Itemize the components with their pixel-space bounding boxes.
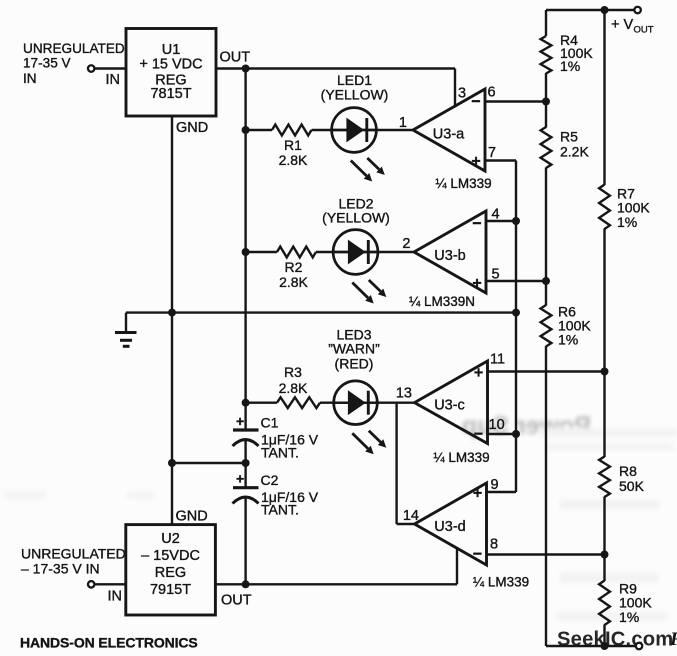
wire R3 to U3-c output (320, 402, 415, 404)
label R3 value (279, 364, 308, 396)
wire R7 chain top (603, 10, 605, 185)
svg-text:IN: IN (106, 72, 121, 88)
terminal +Vout (634, 7, 641, 14)
svg-text:R5: R5 (560, 129, 578, 145)
node R2 tap (242, 248, 250, 256)
wire R4 to R5 (545, 73, 547, 128)
comparator U3-b (414, 211, 486, 293)
svg-text:7915T: 7915T (150, 582, 191, 598)
svg-text:F: F (669, 629, 677, 650)
wire pin 4 (486, 220, 516, 222)
U1 pin label IN (106, 72, 121, 88)
wire U2 OUT rail (215, 583, 457, 585)
LED LED2 yellow (332, 230, 386, 304)
svg-text:2.8K: 2.8K (279, 152, 308, 168)
svg-text:+: + (472, 275, 481, 292)
pin 13 label (396, 386, 412, 402)
wire +15V to R3 (246, 402, 277, 404)
resistor R8 (599, 457, 610, 498)
label R5 value (560, 129, 589, 160)
wire R1 to U3-a output (312, 129, 414, 131)
resistor R4 (541, 36, 552, 73)
wire pin 11 (488, 370, 605, 372)
resistor R6 (541, 305, 552, 347)
svg-text:1: 1 (399, 115, 407, 131)
input terminal unregulated negative (88, 581, 95, 588)
label R6 value (558, 304, 591, 348)
svg-text:OUT: OUT (220, 50, 251, 66)
label LED1 (321, 72, 389, 103)
label R8 value (619, 463, 645, 494)
svg-text:+: + (236, 413, 244, 429)
label R2 value (279, 259, 308, 290)
wire bottom output rail (546, 645, 636, 647)
svg-text:13: 13 (396, 386, 412, 402)
label 1/4 LM339 for U3-c (433, 450, 489, 465)
svg-text:+ V: + V (611, 17, 633, 33)
svg-text:2.2K: 2.2K (560, 144, 589, 160)
node pin 5 to divider (542, 277, 550, 285)
pin 8 label (490, 537, 498, 553)
pin 3 label (458, 86, 466, 102)
resistor R1 (272, 125, 311, 136)
label 1/4 LM339 for U3-d (473, 575, 529, 590)
node -15V at U2 OUT (242, 580, 250, 588)
ground symbol (115, 313, 137, 347)
wire pin 6 (485, 100, 546, 102)
svg-text:2.8K: 2.8K (279, 274, 308, 290)
pin 1 label (399, 115, 407, 131)
U2 pin label OUT (221, 593, 252, 609)
node pin 6 to divider (542, 98, 550, 106)
wire pin 9 (487, 491, 517, 493)
comparator U3-d (415, 483, 487, 565)
label unregulated positive input (23, 41, 125, 86)
svg-text:50K: 50K (619, 478, 645, 494)
label R4 value (560, 32, 593, 74)
svg-text:+: + (474, 365, 483, 382)
comparator U3-a (413, 89, 485, 171)
svg-text:REG: REG (155, 565, 186, 581)
svg-text:11: 11 (490, 352, 505, 368)
wire R7 to R8 (603, 229, 605, 458)
label C2 value (261, 472, 319, 518)
resistor R5 (541, 127, 552, 168)
svg-text:U3-a: U3-a (433, 127, 465, 143)
pin 7 label (488, 145, 496, 161)
svg-text:¼ LM339: ¼ LM339 (473, 575, 529, 590)
svg-text:1%: 1% (619, 609, 639, 625)
svg-text:”WARN”: ”WARN” (328, 341, 380, 357)
node R9 bottom junction (601, 642, 609, 650)
LED LED3 warn red (333, 381, 387, 454)
svg-text:7: 7 (488, 145, 496, 161)
U2 pin label IN (108, 589, 123, 605)
svg-text:HANDS-ON ELECTRONICS: HANDS-ON ELECTRONICS (20, 635, 198, 651)
wire pin 10 (488, 433, 517, 435)
pin 10 label (489, 417, 505, 433)
wire input terminal to U2 IN (94, 583, 126, 585)
svg-text:C1: C1 (261, 415, 279, 431)
resistor R9 (599, 581, 610, 626)
svg-text:U3-d: U3-d (434, 519, 465, 535)
capacitor C1 1uF tantalum (233, 413, 259, 463)
wire pin 8 (487, 553, 605, 555)
node ground at U1 GND line (168, 309, 176, 317)
svg-text:U3-b: U3-b (434, 248, 465, 264)
node C1 top at R3 tap (242, 399, 250, 407)
label +Vout (611, 17, 654, 36)
svg-text:¼ LM339: ¼ LM339 (433, 450, 489, 465)
label LED2 (322, 196, 390, 226)
wire R9 to bottom rail (603, 625, 605, 647)
wire +15V to R2 (246, 251, 277, 253)
wire output branch down to U3-d (397, 403, 415, 524)
svg-text:UNREGULATED: UNREGULATED (23, 41, 125, 56)
resistor R7 (599, 185, 610, 230)
label R9 value (619, 581, 652, 626)
pin 14 label (403, 508, 419, 524)
wire R8 to R9 (603, 497, 605, 582)
svg-text:−: − (471, 94, 480, 111)
svg-text:1%: 1% (560, 58, 580, 74)
svg-text:U2: U2 (161, 531, 180, 547)
label R1 value (279, 137, 308, 168)
pin 4 label (492, 207, 500, 223)
pin 2 label (402, 236, 410, 252)
svg-text:+ 15 VDC: + 15 VDC (139, 57, 202, 73)
node pin 10 junction (512, 430, 520, 438)
wire R6 down to bottom rail (545, 346, 547, 646)
svg-text:R3: R3 (284, 364, 302, 380)
pin 6 label (488, 85, 496, 101)
wire ground line to capacitor junction (172, 462, 246, 464)
voltage regulator U2 7915T (126, 525, 216, 615)
resistor R3 (277, 397, 320, 408)
svg-text:¼ LM339: ¼ LM339 (435, 176, 491, 191)
svg-text:TANT.: TANT. (261, 445, 299, 461)
wire pin 7 (485, 159, 516, 161)
wire +15V to R1 (246, 129, 272, 131)
svg-text:(YELLOW): (YELLOW) (321, 87, 389, 103)
voltage regulator U1 7815T (126, 29, 216, 117)
LED LED1 yellow (331, 108, 385, 182)
svg-text:2.8K: 2.8K (279, 380, 308, 396)
svg-text:(YELLOW): (YELLOW) (322, 210, 390, 226)
svg-text:– 17-35 V IN: – 17-35 V IN (21, 561, 100, 577)
svg-text:– 15VDC: – 15VDC (141, 548, 200, 564)
node +Vout junction (601, 6, 609, 14)
label R7 value (617, 186, 650, 231)
svg-text:−: − (472, 216, 481, 233)
pin 5 label (492, 267, 500, 283)
svg-text:1%: 1% (558, 332, 578, 348)
svg-text:IN: IN (23, 71, 37, 86)
svg-text:OUT: OUT (221, 593, 252, 609)
node ground to capacitors junction (242, 459, 250, 467)
node pin 4 junction (512, 217, 520, 225)
svg-text:8: 8 (490, 537, 498, 553)
U1 pin label GND (176, 120, 208, 136)
svg-text:5: 5 (492, 267, 500, 283)
label unregulated negative input (21, 546, 126, 577)
resistor R2 (277, 247, 316, 258)
svg-text:2: 2 (402, 236, 410, 252)
wire +15V vertical rail (244, 69, 246, 430)
svg-text:4: 4 (492, 207, 500, 223)
svg-text:17-35 V: 17-35 V (23, 56, 71, 71)
capacitor C2 1uF tantalum (233, 463, 259, 584)
wire U1 OUT rail to comparator pin 3 (216, 67, 455, 69)
svg-text:¼ LM339N: ¼ LM339N (409, 294, 475, 309)
wire R5 to R6 (545, 168, 547, 306)
svg-text:IN: IN (108, 589, 123, 605)
wire pin 5 (486, 280, 546, 282)
wire -15V supply stub to U3-d (456, 548, 458, 584)
svg-text:−: − (473, 546, 482, 563)
svg-text:+: + (236, 471, 244, 487)
wire pin 3 drop (454, 69, 456, 108)
svg-text:(RED): (RED) (335, 356, 374, 372)
U1 pin label OUT (220, 50, 251, 66)
wire ground rail (126, 311, 516, 313)
svg-text:+: + (471, 153, 480, 170)
svg-text:UNREGULATED: UNREGULATED (21, 546, 126, 562)
node on U1 GND line (168, 459, 176, 467)
pin 9 label (491, 477, 499, 493)
input terminal unregulated positive (88, 65, 95, 72)
svg-text:9: 9 (491, 477, 499, 493)
node pin 11 junction (601, 368, 609, 376)
svg-text:R8: R8 (619, 463, 637, 479)
wire input terminal to U1 IN (94, 67, 126, 69)
label LED3 (328, 327, 380, 372)
node +15V at U1 OUT (242, 65, 250, 73)
caption HANDS-ON ELECTRONICS (20, 635, 198, 651)
wire reference bus vertical (515, 161, 517, 493)
label 1/4 LM339 for U3-a (435, 176, 491, 191)
label 1/4 LM339N for U3-b (409, 294, 475, 309)
svg-text:R2: R2 (285, 259, 303, 275)
svg-text:7815T: 7815T (150, 86, 191, 102)
comparator U3-c (415, 361, 488, 444)
wire R2 to U3-b output (316, 251, 414, 253)
svg-text:OUT: OUT (634, 25, 654, 36)
svg-text:1%: 1% (617, 214, 637, 230)
label C1 value (261, 415, 319, 461)
svg-text:GND: GND (176, 509, 208, 525)
svg-text:6: 6 (488, 85, 496, 101)
svg-text:+: + (473, 485, 482, 502)
terminal -Vout (636, 643, 643, 650)
wire divider top (545, 10, 547, 36)
svg-text:C2: C2 (261, 472, 279, 488)
svg-text:−: − (474, 426, 483, 443)
svg-text:U3-c: U3-c (434, 398, 465, 414)
svg-text:GND: GND (176, 120, 208, 136)
pin 11 label (490, 352, 505, 368)
wire top output rail (546, 9, 635, 11)
node pin 8 junction (601, 551, 609, 559)
svg-text:10: 10 (489, 417, 505, 433)
wire U1 GND vertical line (171, 116, 173, 525)
svg-text:R1: R1 (284, 137, 302, 153)
node ground rail junction (512, 309, 520, 317)
svg-text:TANT.: TANT. (261, 502, 299, 518)
node R1 tap (242, 126, 250, 134)
U2 pin label GND (176, 509, 208, 525)
